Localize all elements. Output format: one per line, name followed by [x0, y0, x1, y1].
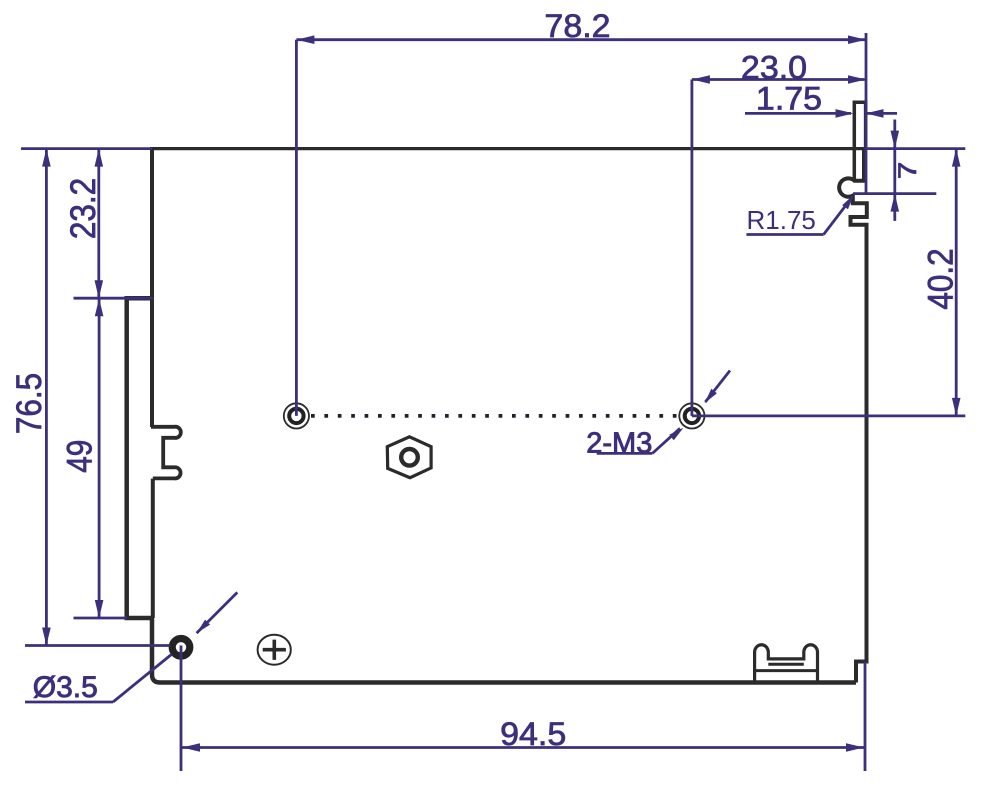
- extension line bottom-right corner down (x=865): [864, 662, 867, 772]
- mounting hole left inner ring: [289, 409, 303, 423]
- dim 1.75 right tail: [866, 112, 897, 115]
- dim 76.5 vertical line: [45, 149, 48, 646]
- arrowhead 49 top: [95, 298, 104, 316]
- dim 49 vertical line: [98, 298, 101, 618]
- arrowhead Ø3.5 (points down-left at hole): [197, 620, 211, 634]
- mounting hole left outer: [284, 403, 309, 428]
- svg-text:78.2: 78.2: [544, 9, 610, 45]
- step extension line (y=298.2): [74, 297, 153, 300]
- extension line right hole up to 23.0: [691, 80, 694, 416]
- arrowhead 40.2 bottom (points down): [952, 398, 961, 416]
- svg-text:2-M3: 2-M3: [586, 427, 652, 459]
- Ø3.5 leader underline: [25, 701, 113, 704]
- DIN rail latch: two rounded fingers: [151, 427, 181, 479]
- arrowhead 7 upper (points down): [891, 131, 900, 149]
- svg-text:49: 49: [60, 440, 99, 473]
- mounting hole right inner ring: [685, 409, 699, 423]
- arrowhead 78.2 left: [296, 35, 314, 44]
- extension line left hole up to 78.2: [295, 40, 298, 416]
- arrowhead 40.2 top (points up): [952, 149, 961, 167]
- arrowhead 94.5 right: [846, 743, 864, 752]
- ground screw symbol circle: [258, 635, 291, 665]
- svg-text:94.5: 94.5: [500, 717, 566, 753]
- 2-M3 leader diagonal upper tail: [705, 371, 730, 403]
- arrowhead 2-M3 upper (points down-left at hole): [705, 389, 717, 403]
- top edge extension left: [21, 147, 152, 150]
- ground screw symbol cross: [263, 640, 286, 660]
- dim 23.2 vertical line: [97, 149, 100, 299]
- Ø3.5 leader diagonal lower: [113, 654, 172, 702]
- bottom mounting clip (bed shape): [755, 645, 818, 683]
- dim 94.5 line: [182, 746, 864, 749]
- svg-text:R1.75: R1.75: [747, 205, 816, 235]
- arrowhead 49 bottom: [95, 600, 104, 618]
- arrowhead 23.2 top: [95, 149, 104, 167]
- chassis right side: bottom step, right edge, notch, hook slot: [839, 149, 867, 683]
- chassis left edge above latch: [150, 298, 154, 427]
- arrowhead R1.75 (points up-right at arc): [842, 195, 854, 210]
- hole centreline extension right (y=415.9): [692, 414, 965, 417]
- top-right tab (1.75 wide ear): [854, 102, 865, 180]
- clip crossbar lower line: [768, 663, 804, 666]
- svg-text:76.5: 76.5: [11, 373, 50, 434]
- bottom-left hole centreline extension (y=645.5): [25, 644, 170, 647]
- mounting hole right outer: [679, 403, 704, 428]
- chassis left lower edge, rounded corner and bottom edge: [152, 616, 856, 683]
- 2-M3 leader underline: [597, 452, 653, 455]
- hex nut body: [387, 437, 431, 478]
- arrowhead 1.75 left (points right at tab): [836, 109, 854, 118]
- clip base line: [755, 669, 818, 672]
- chassis left upper edge: [150, 147, 154, 298]
- svg-text:40.2: 40.2: [922, 248, 961, 309]
- arrowhead 23.0 left: [692, 75, 710, 84]
- extension line bottom-left hole down (x=182): [180, 646, 183, 772]
- dim 40.2 vertical line: [955, 149, 958, 416]
- 2-M3 leader diagonal lower: [652, 428, 680, 453]
- dim 78.2 line: [296, 38, 866, 41]
- Ø3.5 leader diagonal upper tail: [197, 592, 238, 633]
- arrowhead 1.75 right (points left at tab): [866, 109, 884, 118]
- arrowhead 76.5 bottom: [42, 628, 51, 646]
- hook-bottom extension (y=193.6): [853, 192, 936, 195]
- arrowhead 7 lower (points up): [891, 194, 900, 212]
- R1.75 leader underline: [746, 233, 823, 236]
- centre dotted line between holes: [311, 414, 682, 418]
- arrowhead 23.0 right: [848, 75, 866, 84]
- bottom-left hole Ø3.5 ring: [172, 639, 190, 657]
- dim 23.0 line: [692, 78, 865, 81]
- arrowhead 2-M3 lower (points up-right at hole): [669, 428, 683, 441]
- arrowhead 23.2 bottom: [95, 280, 104, 298]
- svg-text:23.2: 23.2: [65, 178, 104, 239]
- hex nut hole ring: [401, 449, 418, 466]
- chassis body outline: top edge: [152, 147, 866, 150]
- DIN rail plate (left flange): [127, 298, 152, 618]
- arrowhead 78.2 right: [848, 35, 866, 44]
- svg-text:7: 7: [893, 162, 921, 179]
- svg-text:1.75: 1.75: [756, 81, 822, 117]
- top edge extension right (y=148.6): [866, 147, 965, 150]
- dim 1.75 line / underline: [745, 112, 851, 115]
- arrowhead 94.5 left: [182, 743, 200, 752]
- plate bottom extension (y=618): [74, 617, 128, 620]
- dim 7 vertical line: [893, 120, 896, 221]
- extension of right edge above top (78.2/23.0 right ref): [865, 33, 868, 194]
- svg-text:Ø3.5: Ø3.5: [33, 671, 98, 704]
- arrowhead 76.5 top: [42, 149, 51, 167]
- chassis left edge below latch: [151, 479, 155, 618]
- R1.75 leader diagonal: [824, 205, 847, 235]
